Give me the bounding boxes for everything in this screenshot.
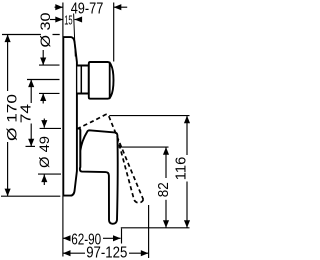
- dashed paddle top edge: [77, 114, 109, 129]
- arrow 49-77 right: [114, 4, 122, 10]
- dim line diameter 30 top tail: [42, 50, 44, 65]
- arrow 82 bottom: [163, 220, 169, 228]
- extension line diameter 30 bottom: [39, 92, 60, 94]
- arrow diameter 170 bottom: [5, 189, 11, 197]
- dim line 49-77 left tail: [55, 6, 63, 8]
- svg-text:Ø 30: Ø 30: [37, 12, 53, 47]
- extension line 116 top: [109, 115, 189, 117]
- svg-text:97-125: 97-125: [86, 244, 127, 260]
- dim line 74 upper: [30, 80, 32, 104]
- arrow 116 bottom: [184, 220, 190, 228]
- arrow diameter 170 top: [5, 35, 11, 43]
- extension line 97-125 right (dashed tip): [148, 205, 150, 258]
- dashed lever back edge: [117, 138, 134, 200]
- dashed lever (open position): [77, 114, 143, 203]
- sleeve (diverter escutcheon ring): [77, 66, 89, 94]
- arrow 74 bottom: [28, 139, 34, 147]
- extension line bottom reach (82/116): [121, 227, 190, 229]
- hub disc front edge: [79, 130, 81, 168]
- diverter knob: [89, 62, 114, 99]
- extension line 62-90 right: [121, 229, 123, 244]
- extension line 82 top: [118, 146, 168, 148]
- dim line 97-125 right: [129, 252, 148, 254]
- dim line 49-77 right tail: [114, 6, 128, 8]
- extension line wall plane (top): [62, 3, 64, 38]
- dim line 82 lower: [165, 200, 167, 228]
- arrow 82 top: [163, 147, 169, 155]
- escutcheon plate (side view): [63, 37, 77, 196]
- dim line 97-125 left: [63, 252, 85, 254]
- dashed lever front edge: [109, 116, 143, 199]
- dim line 74 lower: [30, 124, 32, 147]
- arrow diameter 49 top: [41, 120, 47, 128]
- svg-text:49-77: 49-77: [71, 0, 104, 17]
- extension line 49-77 right: [113, 3, 115, 62]
- arrow 15 left: [55, 16, 63, 22]
- dim line 15 left tail: [50, 19, 63, 21]
- dim line diameter 170 lower: [7, 142, 9, 196]
- svg-text:116: 116: [173, 157, 190, 181]
- arrow 97-125 left: [63, 250, 71, 256]
- dim line diameter 30 bottom tail: [42, 93, 44, 103]
- knob dome tangent line: [109, 62, 111, 98]
- extension line diameter 49 top: [40, 127, 61, 129]
- arrow diameter 49 bottom: [41, 175, 47, 183]
- extension line diameter 49 bottom: [38, 173, 61, 175]
- lever handle (solid, closed position): [77, 129, 118, 224]
- dim line 15 right tail: [75, 19, 81, 21]
- sleeve groove line: [80, 66, 82, 94]
- extension line 74 top (knob axis): [27, 79, 60, 81]
- extension line 15 right (conical face): [74, 14, 76, 57]
- arrow 62-90 left: [63, 235, 71, 241]
- arrow 97-125 right: [141, 250, 149, 256]
- dim line 62-90 right: [103, 237, 121, 239]
- dim line diameter 49 top tail: [43, 119, 45, 128]
- dim line 116 upper: [186, 116, 188, 155]
- svg-text:74: 74: [19, 104, 35, 123]
- extension line wall plane (bottom): [62, 196, 64, 257]
- arrow 116 top: [184, 116, 190, 124]
- arrow diameter 30 bottom: [40, 93, 46, 101]
- dim line 62-90 left: [63, 237, 70, 239]
- dim line 82 upper: [165, 147, 167, 178]
- dim line 116 lower: [186, 182, 188, 228]
- dim line diameter 49 bottom tail: [43, 174, 45, 185]
- extension line diameter 30 top: [39, 64, 60, 66]
- arrow diameter 30 top: [40, 58, 46, 66]
- dashed lever tip cap: [134, 199, 143, 203]
- extension line 74 bottom: [26, 145, 36, 147]
- dim line diameter 170 upper: [7, 35, 9, 92]
- svg-text:15: 15: [64, 14, 72, 28]
- extension line diameter 170 bottom: [1, 195, 60, 197]
- arrow 49-77 left: [55, 4, 63, 10]
- extension line diameter 170 top: [2, 34, 60, 36]
- arrow 74 top: [28, 80, 34, 88]
- svg-text:Ø 170: Ø 170: [4, 94, 19, 141]
- svg-text:Ø 49: Ø 49: [36, 136, 52, 168]
- svg-text:82: 82: [155, 182, 172, 197]
- arrow 15 right: [75, 16, 83, 22]
- arrow 62-90 right: [113, 235, 121, 241]
